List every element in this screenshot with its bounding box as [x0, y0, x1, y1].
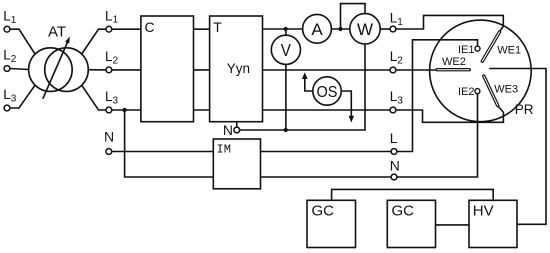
wire L2 T to col3 [263, 69, 391, 71]
svg-text:AT: AT [48, 24, 66, 41]
wire L3 col2 to box C [112, 109, 141, 111]
wire L1 col3 to PR feed [396, 15, 504, 31]
terminal L3 col1 [4, 105, 10, 111]
terminal L2 col2 [106, 67, 112, 73]
terminal N col3 [391, 174, 397, 180]
wire N line [240, 44, 366, 130]
autotransformer AT circle left [29, 48, 73, 92]
wire L2 col2 to box C [112, 69, 141, 71]
svg-text:PR: PR [515, 102, 534, 117]
svg-text:T: T [213, 19, 222, 35]
wire V riser bottom [285, 64, 287, 130]
AT arrow [43, 41, 68, 99]
wattmeter W voltage loop [341, 4, 366, 29]
junction dot W loop [338, 27, 342, 31]
terminal L1 col2 [106, 26, 112, 32]
svg-text:WE3: WE3 [494, 83, 518, 95]
terminal L1 col3 [390, 26, 396, 32]
terminal L2 col3 [390, 67, 396, 73]
OS arrowhead down [349, 116, 355, 123]
electrode IE1 [475, 46, 480, 51]
wire L terminal to IE1 [397, 40, 478, 152]
wire L1 col1 to AT [10, 29, 35, 54]
AT arrowhead [65, 37, 70, 44]
terminal N under T [234, 127, 240, 133]
wire riser L3 to N-rail [125, 110, 214, 177]
wire center electrode to HV [489, 69, 546, 225]
svg-text:IM: IM [217, 143, 231, 157]
svg-text:L1: L1 [3, 9, 17, 26]
svg-text:N: N [390, 157, 400, 173]
box HV [469, 200, 517, 247]
wires C to T [194, 28, 210, 30]
electrode WE1 [482, 32, 499, 61]
autotransformer AT circle right [45, 48, 89, 92]
svg-text:N: N [104, 129, 114, 145]
terminal N left [106, 149, 112, 155]
wire A to W [331, 28, 350, 30]
wire IM to L terminal [261, 151, 392, 153]
OS probe left [305, 77, 313, 92]
terminal L3 col3 [390, 107, 396, 113]
terminal L col3 [391, 149, 397, 155]
ammeter A [303, 14, 332, 43]
box T [210, 16, 263, 122]
box C [141, 16, 194, 122]
wire N terminal to IE2 riser [397, 94, 478, 177]
svg-text:L1: L1 [390, 11, 404, 28]
svg-text:GC: GC [392, 203, 415, 220]
svg-text:WE2: WE2 [442, 56, 466, 68]
svg-text:L2: L2 [3, 48, 17, 65]
OS probe right [341, 91, 351, 118]
svg-text:L3: L3 [105, 89, 119, 106]
svg-text:HV: HV [473, 203, 494, 220]
wattmeter W [350, 14, 380, 44]
wire T bottom to N terminal [236, 122, 238, 128]
svg-text:IE1: IE1 [458, 44, 475, 56]
voltmeter V [271, 35, 300, 64]
svg-text:OS: OS [317, 84, 338, 101]
wire V riser top [285, 29, 287, 35]
electrode WE2 [437, 68, 469, 71]
svg-text:C: C [145, 19, 155, 35]
electrode WE3 [484, 76, 498, 106]
svg-text:L3: L3 [3, 87, 17, 104]
wire AT to L3 col2 [82, 85, 106, 110]
wire L1 col2 to box C [112, 28, 141, 30]
svg-text:L3: L3 [390, 89, 404, 106]
svg-text:L2: L2 [390, 49, 404, 66]
svg-text:Yyn: Yyn [227, 61, 250, 76]
svg-text:IE2: IE2 [458, 86, 475, 98]
wire W to L1 col3 [380, 28, 390, 30]
reactor PR circle [430, 20, 532, 122]
wire AT to L2 col2 [88, 69, 106, 71]
junction dot V bottom [284, 128, 288, 132]
svg-text:L: L [390, 130, 398, 146]
svg-text:WE1: WE1 [497, 45, 521, 57]
svg-text:A: A [311, 20, 323, 39]
electrode IE2 [475, 89, 480, 94]
wire L3 col1 to AT [10, 85, 35, 108]
box GC2 [387, 200, 435, 247]
OS arrowhead up [302, 72, 308, 79]
oscilloscope OS [313, 77, 341, 105]
wire L3 col3 to WE3 [396, 106, 504, 122]
wire GC2 to HV [436, 224, 470, 226]
IM box [213, 139, 260, 189]
svg-text:GC: GC [312, 203, 335, 220]
box GC1 [307, 200, 356, 247]
svg-text:L2: L2 [105, 49, 119, 66]
terminal L3 col2 [106, 107, 112, 113]
terminal L1 col1 [4, 26, 10, 32]
wire AT to L1 col2 [82, 29, 106, 54]
wire L2 col1 to AT [10, 69, 29, 70]
bus GC1-HV top [332, 189, 494, 200]
wire L1 T to A [263, 28, 303, 30]
junction dot V top [284, 27, 288, 31]
svg-text:L1: L1 [105, 8, 119, 25]
terminal L2 col1 [4, 66, 10, 72]
wire L2 col3 to WE2 [396, 69, 440, 71]
svg-text:W: W [357, 20, 373, 39]
svg-text:N: N [223, 122, 233, 138]
junction dot L3 riser [123, 108, 127, 112]
svg-text:V: V [281, 40, 291, 60]
wire N-left terminal to IM [112, 151, 214, 153]
wire L3 T to col3 [263, 109, 391, 111]
wire IM to N terminal [261, 176, 392, 178]
